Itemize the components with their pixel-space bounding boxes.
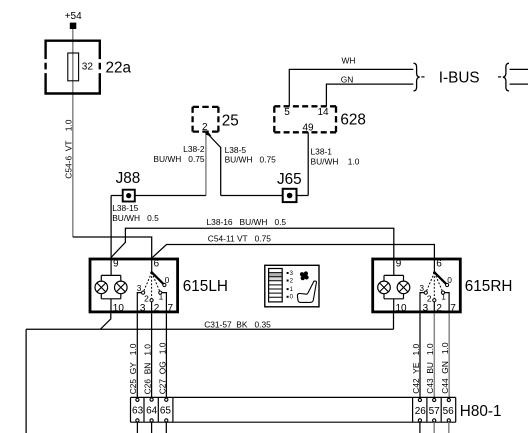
dash before right brace: [498, 76, 501, 78]
svg-text:C31-57 BK 0.35: C31-57 BK 0.35: [204, 319, 271, 329]
supply terminal square: [70, 23, 77, 29]
svg-text:BU/WH 1.0: BU/WH 1.0: [311, 156, 360, 166]
I-BUS left brace: [414, 63, 420, 91]
svg-text:GN: GN: [341, 74, 354, 84]
svg-text:63: 63: [132, 405, 144, 416]
svg-text:I-BUS: I-BUS: [439, 69, 480, 86]
svg-text:14: 14: [317, 107, 329, 118]
svg-text:26: 26: [415, 406, 427, 417]
svg-text:J88: J88: [116, 170, 141, 187]
svg-text:C42 YE 1.0: C42 YE 1.0: [411, 344, 421, 394]
wire L38-1 BU/WH from 628 pin 49: [307, 132, 309, 195]
svg-text:2: 2: [202, 122, 208, 133]
svg-text:C27 OG 1.0: C27 OG 1.0: [157, 342, 167, 394]
I-BUS right brace: [503, 63, 509, 91]
svg-text:2: 2: [154, 303, 160, 314]
legend level marker 2: [287, 278, 294, 284]
wire C25 GY from LH pin 3 to connector 63: [136, 313, 138, 398]
junction J88: [123, 190, 135, 202]
I-BUS stub wire GN right: [510, 83, 528, 85]
legend icon box (seat heater control): [265, 265, 319, 307]
lamp right: [115, 281, 128, 294]
svg-text:628: 628: [340, 111, 366, 128]
switch lever to position 0: [152, 272, 164, 284]
legend fan symbol: [300, 271, 309, 280]
svg-text:H80-1: H80-1: [460, 403, 502, 420]
contact lead to pin 3: [137, 293, 141, 312]
legend level marker 0: [287, 295, 294, 301]
svg-text:615LH: 615LH: [183, 278, 228, 295]
ECU box 628 dashed border: [274, 106, 336, 132]
stub wire below connector 26: [419, 422, 421, 433]
wire C54-6 VT vertical (gray): [72, 29, 74, 237]
connector cell walls right group (26 57 56): [413, 397, 456, 422]
svg-text:1: 1: [159, 292, 164, 302]
svg-text:2: 2: [144, 294, 149, 304]
wire C43 BU from RH pin 2 to connector 57 (gray): [433, 313, 435, 398]
svg-text:22a: 22a: [106, 59, 132, 76]
svg-text:5: 5: [284, 107, 290, 118]
wire C26 BN from LH pin 2 to connector 64: [151, 313, 153, 398]
stub wires below connector 57 56 (gray): [434, 422, 449, 433]
connector terminal circles top row: [136, 398, 451, 402]
svg-text:615RH: 615RH: [465, 278, 513, 295]
wire node run L38-5 corner to J65 to L38-1: [221, 195, 309, 197]
switch contact circle 1: [159, 291, 162, 294]
svg-text:3: 3: [140, 303, 146, 314]
svg-text:L38-16 BU/WH 0.5: L38-16 BU/WH 0.5: [207, 217, 287, 227]
switch contact circle 3: [142, 291, 145, 294]
svg-text:C44 GN 1.0: C44 GN 1.0: [440, 342, 450, 394]
svg-text:3: 3: [137, 283, 142, 293]
wire C27 OG from LH pin 7 to connector 65: [165, 313, 167, 398]
svg-text:C25 GY 1.0: C25 GY 1.0: [128, 343, 138, 394]
svg-text:25: 25: [222, 113, 239, 130]
unit box border: [90, 259, 178, 312]
lamp feed from pin 9: [101, 259, 121, 312]
connector terminal circles bottom row: [136, 419, 451, 422]
svg-text:C26 BN 1.0: C26 BN 1.0: [143, 344, 153, 395]
svg-text:C54-11 VT 0.75: C54-11 VT 0.75: [208, 234, 271, 244]
svg-text:+54: +54: [65, 11, 82, 22]
svg-text:L38-1: L38-1: [311, 146, 333, 156]
switch dashed throw lines: [143, 273, 160, 301]
svg-text:64: 64: [146, 405, 158, 416]
svg-text:L38-5: L38-5: [225, 145, 247, 155]
wire L38-2 BU/WH (gray) from box 25 pin 2: [205, 132, 207, 196]
svg-text:BU/WH 0.5: BU/WH 0.5: [112, 213, 159, 223]
stub wires below connector left: [137, 422, 166, 433]
heater unit 615LH (box with lamps and switch): [90, 259, 178, 315]
lamp left: [95, 281, 108, 294]
svg-text:7: 7: [168, 303, 174, 314]
connector strip H80-1 rails: [131, 397, 456, 422]
svg-text:0: 0: [165, 275, 170, 285]
wire C54-6 horizontal feed to LH pin 6: [73, 237, 152, 259]
svg-text:56: 56: [443, 406, 455, 417]
fuse element rectangle: [68, 53, 79, 81]
legend level gauge ladder: [269, 269, 283, 302]
svg-text:C54-6 VT 1.0: C54-6 VT 1.0: [64, 119, 74, 178]
dash after left brace: [421, 76, 424, 78]
heater unit 615RH (reuse of 615LH symbol): [373, 259, 461, 315]
ECU box 25 dashed border: [193, 107, 219, 132]
switch position circle 0: [163, 283, 166, 286]
wire WH from pin 5 to I-BUS: [289, 69, 413, 106]
fuse box 22a dashed border: [45, 40, 101, 95]
svg-text:L38-2: L38-2: [183, 144, 205, 154]
svg-text:65: 65: [160, 405, 172, 416]
junction wedge at box 25 pin 2: [205, 132, 212, 136]
svg-text:57: 57: [429, 406, 441, 417]
svg-text:49: 49: [302, 122, 314, 133]
I-BUS stub wire WH right: [510, 68, 528, 70]
wire C44 GN from RH pin 7 to connector 56 (gray): [448, 313, 450, 398]
wire C42 YE from RH pin 3 to connector 26: [419, 313, 421, 398]
contact lead to pin 7: [162, 293, 167, 312]
legend seat symbol: [297, 281, 316, 302]
svg-text:C43 BU 1.0: C43 BU 1.0: [425, 343, 435, 394]
svg-text:6: 6: [154, 259, 160, 270]
wire node run J88 to L38-2 corner: [111, 195, 206, 197]
wire C31-57 BK common ground run: [26, 313, 393, 433]
wire L38-15 drop to pin 9 of 615LH: [110, 196, 112, 259]
legend level marker 1: [287, 287, 294, 293]
svg-text:BU/WH 0.75: BU/WH 0.75: [225, 155, 277, 165]
svg-text:J65: J65: [277, 171, 302, 188]
svg-text:BU/WH 0.75: BU/WH 0.75: [153, 154, 205, 164]
legend level marker 3: [287, 271, 294, 277]
wire L38-16 BU/WH from LH pin 9 to RH pin 9: [111, 228, 394, 259]
wire GN from pin 14 to I-BUS: [326, 84, 413, 106]
contact lead to pin 2: [151, 302, 153, 312]
wire C54-11 VT from LH pin 6 to RH pin 6: [153, 245, 435, 259]
svg-text:10: 10: [113, 303, 125, 314]
svg-text:9: 9: [113, 259, 119, 270]
svg-text:L38-15: L38-15: [112, 203, 138, 213]
junction J65: [283, 189, 297, 202]
connector cell walls left group (63 64 65): [131, 397, 173, 422]
svg-text:32: 32: [82, 61, 94, 72]
switch contact circle 2: [150, 299, 153, 302]
switch stem from pin 6: [151, 259, 153, 272]
wire L38-5 BU/WH diagonal from box 25 pin 2: [206, 132, 221, 196]
svg-text:WH: WH: [342, 55, 356, 65]
